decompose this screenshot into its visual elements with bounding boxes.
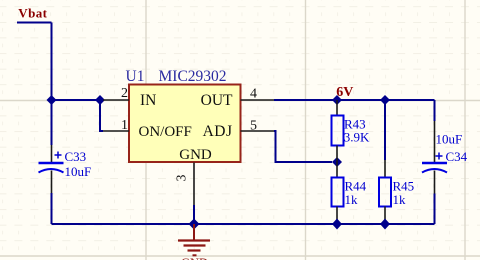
svg-text:10uF: 10uF	[436, 132, 463, 147]
junction at GND rail / R45	[380, 219, 390, 230]
part name MIC29302	[159, 68, 227, 85]
resistor R45 bottom pin	[384, 207, 386, 225]
resistor R44 top pin	[336, 162, 338, 178]
wire Vbat horizontal	[17, 22, 52, 24]
pin 1 line	[103, 130, 129, 132]
svg-text:GND: GND	[181, 256, 208, 260]
net label 6V	[336, 85, 353, 100]
value 10uF of C34	[436, 132, 463, 147]
junction at GND rail / R44	[332, 219, 342, 230]
capacitor C33 top plate	[39, 162, 64, 165]
wire input node to pin 2	[52, 99, 104, 101]
junction at IN branch node	[95, 95, 105, 105]
net label Vbat	[18, 6, 47, 21]
pin label IN	[140, 92, 156, 109]
pin number 1	[121, 118, 128, 133]
pin number 4	[250, 87, 257, 102]
resistor R45 body	[379, 178, 391, 207]
capacitor C33 plus sign	[55, 152, 62, 159]
resistor R45 top pin	[384, 160, 386, 178]
capacitor C33 bottom plate arc	[39, 169, 64, 173]
pin label OUT	[201, 92, 233, 109]
svg-text:5: 5	[250, 119, 257, 134]
major grid line vertical x=465	[464, 0, 466, 260]
svg-text:C34: C34	[446, 149, 468, 164]
pin 4 line	[241, 99, 275, 101]
svg-text:C33: C33	[65, 149, 87, 164]
capacitor C34 top plate	[422, 162, 447, 165]
junction at GND rail / pin 3	[189, 219, 200, 230]
value 3.9K of R43	[344, 130, 370, 145]
svg-text:10uF: 10uF	[65, 164, 92, 179]
pin label ADJ	[203, 123, 233, 140]
wire C33 to bottom rail	[51, 193, 53, 224]
ground net name GND partially cut	[181, 256, 208, 260]
resistor R43 bottom pin	[336, 146, 338, 163]
svg-text:MIC29302: MIC29302	[159, 68, 227, 85]
designator C34	[446, 149, 468, 164]
designator R43	[344, 117, 366, 132]
wire Vbat vertical drop to input node	[51, 23, 53, 101]
pin label GND	[179, 147, 212, 163]
svg-text:1k: 1k	[393, 192, 407, 207]
junction at Vbat/C33 node	[47, 95, 57, 105]
capacitor C34 bottom pin	[434, 171, 436, 194]
major grid line horizontal y=256	[0, 255, 480, 257]
designator R44	[345, 179, 367, 194]
svg-text:2: 2	[121, 86, 128, 101]
junction at ADJ/R43/R44 node	[332, 157, 342, 167]
resistor R44 bottom pin	[336, 207, 338, 225]
resistor R43 top pin	[336, 100, 338, 116]
wire pin 3 to ground rail	[193, 205, 195, 224]
major grid line vertical x=305.5	[305, 0, 307, 260]
pin 5 line	[241, 130, 275, 132]
capacitor C33 top pin	[51, 145, 53, 162]
svg-text:GND: GND	[179, 147, 212, 163]
ground symbol bar 3	[188, 249, 201, 251]
designator C33	[65, 149, 87, 164]
ground symbol bar 2	[184, 244, 206, 246]
svg-text:3: 3	[174, 174, 189, 181]
designator R45	[393, 179, 415, 194]
wire 6V rail down to C34	[434, 100, 436, 121]
ground symbol bar 4	[193, 254, 197, 256]
capacitor C34 bottom plate arc	[422, 169, 447, 173]
svg-text:4: 4	[250, 87, 257, 102]
capacitor C33 bottom pin	[51, 171, 53, 194]
svg-text:3.9K: 3.9K	[344, 130, 370, 145]
major grid line horizontal y=100	[0, 100, 480, 102]
value 1k of R45	[393, 192, 407, 207]
IC U1 body	[129, 85, 241, 163]
svg-text:ON/OFF: ON/OFF	[139, 124, 192, 140]
junction at 6V/R43 node	[332, 95, 342, 105]
svg-text:IN: IN	[140, 92, 156, 109]
svg-text:1: 1	[121, 118, 128, 133]
pin 3 line	[193, 163, 195, 206]
designator U1	[126, 68, 145, 85]
resistor R44 body	[332, 178, 344, 207]
capacitor C34 plus sign	[436, 153, 443, 160]
pin number 3 rotated	[174, 174, 189, 181]
capacitor C34 top pin	[434, 121, 436, 162]
pin number 2	[121, 86, 128, 101]
value 1k of R44	[345, 192, 359, 207]
pin 2 line	[103, 99, 129, 101]
major grid line vertical x=146	[145, 0, 147, 260]
svg-text:U1: U1	[126, 68, 145, 85]
svg-text:ADJ: ADJ	[203, 123, 233, 140]
value 10uF of C33	[65, 164, 92, 179]
wire bottom ground rail	[52, 223, 435, 225]
wire C33 branch upper	[51, 100, 53, 145]
junction at 6V/R45 node	[380, 95, 390, 105]
pin label ON/OFF	[139, 124, 192, 140]
wire 6V to R45	[384, 100, 386, 160]
svg-text:Vbat: Vbat	[18, 6, 47, 21]
svg-text:1k: 1k	[345, 192, 359, 207]
wire branch down to ON/OFF row	[100, 100, 103, 131]
ground symbol stem	[193, 224, 195, 240]
wire pin 5 to ADJ feedback	[274, 131, 332, 162]
pin number 5	[250, 119, 257, 134]
wire OUT to C34 column (6V rail)	[274, 99, 435, 101]
wire C34 to bottom rail	[434, 194, 436, 225]
svg-text:OUT: OUT	[201, 92, 233, 109]
ground symbol bar 1	[178, 239, 210, 241]
resistor R43 body	[332, 116, 344, 146]
